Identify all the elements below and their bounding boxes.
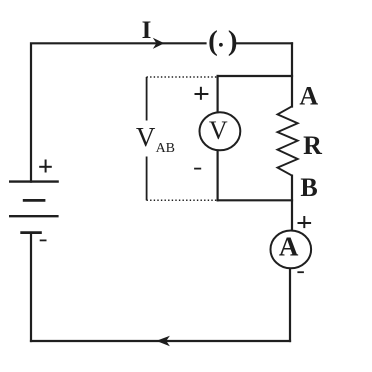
wire mid horizontal solid (voltmeter top to node A branch) bbox=[218, 75, 292, 77]
wire below ammeter bbox=[289, 269, 291, 341]
wire top-left segment bbox=[31, 43, 206, 181]
wire right upper vertical bbox=[291, 43, 293, 106]
battery plate long bbox=[9, 215, 59, 217]
voltmeter minus sign bbox=[194, 168, 201, 170]
battery minus sign bbox=[40, 239, 47, 241]
svg-text:A: A bbox=[299, 82, 318, 111]
battery bbox=[9, 182, 59, 233]
wire left lower vertical bbox=[30, 233, 32, 341]
wire bottom horizontal bbox=[31, 340, 290, 342]
ammeter plus sign bbox=[298, 216, 312, 228]
VAB measurement bracket dotted bottom bbox=[147, 199, 219, 201]
resistor R zigzag bbox=[278, 106, 298, 175]
svg-text:): ) bbox=[228, 25, 238, 57]
battery plate short bbox=[23, 199, 46, 202]
battery plus sign bbox=[39, 160, 52, 173]
voltmeter V circle bbox=[200, 112, 241, 150]
wire voltmeter bottom to node B bbox=[218, 199, 292, 201]
wire voltmeter branch upper bbox=[217, 76, 219, 112]
wire top-right segment bbox=[237, 42, 293, 44]
wire resistor-to-ammeter bbox=[291, 176, 293, 230]
battery plate long top bbox=[9, 180, 59, 182]
voltmeter plus sign bbox=[195, 87, 209, 100]
svg-text:V: V bbox=[136, 122, 156, 152]
svg-text:V: V bbox=[209, 116, 228, 145]
battery plate short bottom bbox=[20, 231, 42, 234]
VAB bracket left upper segment bbox=[146, 77, 148, 121]
ammeter minus sign bbox=[297, 271, 304, 273]
ammeter A circle bbox=[271, 231, 312, 269]
svg-text:R: R bbox=[303, 131, 322, 160]
VAB bracket left lower segment bbox=[146, 157, 148, 201]
bottom return arrow bbox=[156, 336, 170, 347]
source symbol center dot bbox=[219, 43, 223, 47]
svg-text:AB: AB bbox=[156, 141, 175, 156]
svg-text:B: B bbox=[300, 173, 317, 202]
current arrow on top wire (I) bbox=[153, 38, 165, 49]
svg-text:A: A bbox=[279, 232, 299, 262]
svg-text:(: ( bbox=[208, 25, 218, 57]
svg-text:I: I bbox=[142, 17, 152, 44]
VAB measurement bracket dotted top bbox=[147, 76, 219, 78]
wire voltmeter branch lower bbox=[217, 150, 219, 201]
